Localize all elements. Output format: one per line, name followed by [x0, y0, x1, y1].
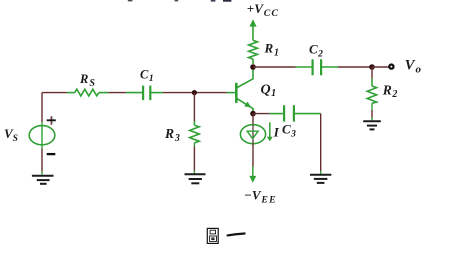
wire RS to C1 — [108, 92, 126, 94]
ground right of C3 — [310, 175, 331, 183]
wire VS to ground — [41, 149, 43, 172]
capacitor C3 — [270, 105, 321, 121]
top edge text fragment 2 — [175, 0, 179, 1]
transistor Q1 — [236, 67, 253, 114]
wire current source to VEE — [252, 144, 254, 167]
wire C2 to output node — [338, 66, 372, 68]
resistor R3 — [190, 121, 200, 143]
top edge text fragment 3 — [211, 0, 216, 2]
node output — [369, 64, 375, 70]
current arrow I — [267, 122, 273, 141]
wire node down to R3 — [193, 93, 195, 121]
wire input rail left — [42, 92, 67, 94]
wire VS lead green above circle — [41, 122, 43, 126]
output terminal Vo — [389, 65, 393, 69]
wire green fringe above ground 2 — [193, 171, 195, 174]
wire green fringe above ground 3 — [371, 118, 373, 121]
wire C3 right corner down — [320, 114, 322, 171]
capacitor C2 — [296, 59, 339, 75]
wire emitter to C3 — [253, 113, 270, 115]
minus sign of VS — [47, 153, 56, 155]
node collector — [250, 64, 256, 70]
wire C1 to base node — [163, 92, 227, 94]
VCC arrow — [249, 19, 256, 38]
caption figure one glyph yi — [228, 234, 245, 236]
ground under R2 — [363, 121, 381, 129]
wire R2 lead green below — [371, 103, 373, 110]
top edge text fragment 1 — [128, 0, 133, 1]
wire R2 to ground — [371, 110, 373, 118]
top edge text fragment 4 — [223, 0, 231, 2]
wire base lead green — [227, 92, 235, 94]
resistor RS — [67, 89, 108, 96]
wire VS bottom lead green — [41, 145, 43, 149]
wire green fringe above ground 4 — [320, 171, 322, 174]
plus sign of VS — [47, 116, 56, 125]
VEE arrow — [249, 167, 256, 183]
wire green fringe above ground 1 — [41, 172, 43, 175]
wire R3 to ground — [193, 146, 195, 171]
wire output node down to R2 — [371, 67, 373, 79]
voltage source VS — [29, 126, 55, 145]
resistor R2 — [367, 79, 376, 104]
current source I — [240, 125, 265, 144]
svg-text:I: I — [273, 125, 280, 140]
ground under VS — [32, 176, 54, 184]
wire VS top vertical — [41, 93, 43, 123]
emitter arrow of Q1 — [244, 102, 251, 108]
wire R3 lead green below — [193, 143, 195, 146]
wire collector to C2 — [253, 66, 296, 68]
node base junction — [192, 90, 197, 95]
resistor R1 — [249, 38, 258, 64]
ground under R3 — [185, 174, 206, 183]
wire emitter node to current source — [252, 114, 254, 125]
capacitor C1 — [126, 86, 163, 101]
caption figure one glyph tu — [207, 228, 218, 243]
node emitter — [250, 111, 256, 117]
wire node to terminal — [372, 66, 389, 68]
